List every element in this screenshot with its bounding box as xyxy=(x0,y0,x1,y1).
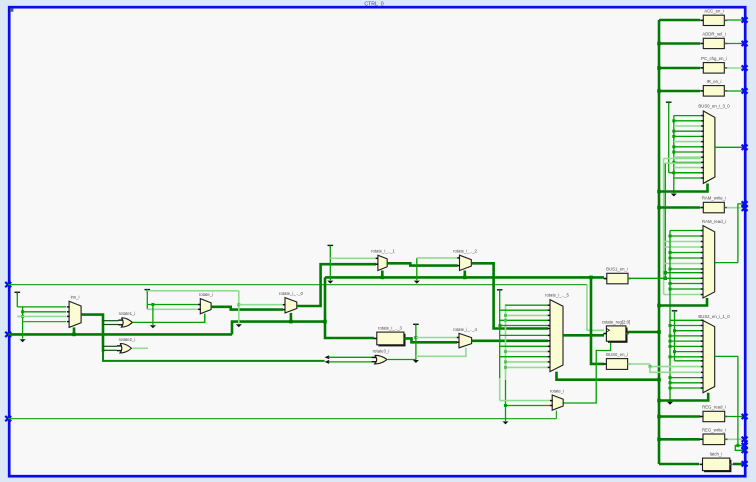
wire mux input row (BUS1 net) xyxy=(665,277,701,279)
junction xyxy=(657,415,661,419)
wire stem pale lower xyxy=(499,378,501,401)
wire select tail to long net xyxy=(555,411,557,419)
wire mux input row xyxy=(670,283,701,285)
wire rotate_i_0 select tail xyxy=(290,313,293,322)
junction xyxy=(669,340,672,343)
wire mux input row xyxy=(675,330,702,332)
svg-text:BUS1_en_i: BUS1_en_i xyxy=(606,267,628,272)
wire mux input row xyxy=(670,340,701,342)
bus tap arrowheads xyxy=(325,355,330,359)
ground arrow xyxy=(413,360,419,363)
vcc T big mux xyxy=(497,289,503,291)
svg-text:rotate_i_.._5: rotate_i_.._5 xyxy=(545,292,569,297)
wire ins_i net lower run xyxy=(103,351,325,361)
wire mux input row xyxy=(670,345,701,347)
pin RAM_read_i xyxy=(742,201,748,206)
wire BUS2 mux output xyxy=(715,355,738,357)
buffer latch_i xyxy=(704,460,731,473)
wire big mux select tail xyxy=(557,372,660,380)
wire rotate_i_2 select tail xyxy=(463,271,466,278)
svg-text:rotate_i_.._1: rotate_i_.._1 xyxy=(371,249,395,254)
wire mux0 input a xyxy=(239,304,283,306)
wire mux input row pale xyxy=(664,241,701,243)
mux ins_i xyxy=(69,301,81,327)
wire pale vertical big mux xyxy=(505,304,507,380)
pin PC_chg_en_i xyxy=(742,65,748,70)
wire vcc stem xyxy=(16,293,18,307)
or-gate rotate3_i xyxy=(375,355,387,364)
wire mux input row xyxy=(670,335,701,337)
junction xyxy=(657,438,661,442)
wire pale vertical xyxy=(238,291,240,324)
wire vcc stem xyxy=(146,290,148,309)
buffer REG_read_i xyxy=(703,411,725,421)
junction xyxy=(323,320,327,324)
wire rotate_i_4 output to big mux xyxy=(472,339,548,342)
wire pale vertical feedback xyxy=(663,159,665,295)
junction xyxy=(669,257,672,260)
mux rotate_i_1 xyxy=(378,255,387,270)
junction xyxy=(151,303,154,306)
wire RAM_read mux output xyxy=(715,262,738,264)
junction xyxy=(669,282,672,285)
wire ACC_en_i output xyxy=(727,19,745,21)
wire vcc stem down xyxy=(674,312,676,361)
svg-text:REG_write_i: REG_write_i xyxy=(702,427,726,432)
junction xyxy=(669,288,672,291)
ground arrow xyxy=(236,324,242,327)
junction xyxy=(673,350,676,353)
wire mux input row from T xyxy=(675,360,702,362)
wire mux input row xyxy=(670,268,701,270)
or-gate rotate1_i xyxy=(121,318,132,327)
wire mux input row xyxy=(675,351,702,353)
svg-text:ACC_en_i: ACC_en_i xyxy=(704,9,724,14)
wire mux input row xyxy=(674,115,701,117)
junction xyxy=(736,444,739,447)
junction xyxy=(589,276,593,280)
mux RAM_read_i xyxy=(703,226,715,298)
junction xyxy=(657,330,661,334)
junction xyxy=(664,277,667,280)
wire mux4 input a xyxy=(416,337,457,339)
wire mux input row xyxy=(674,172,701,174)
wire gate2 input b xyxy=(103,349,117,351)
ground arrow xyxy=(503,421,509,424)
pin BUS2_en_i a xyxy=(742,443,748,448)
wire mux input row xyxy=(674,156,701,158)
wire mux input row pale xyxy=(664,246,701,248)
wire latch_i output xyxy=(733,463,745,466)
svg-text:rotate_i_.._4: rotate_i_.._4 xyxy=(453,327,477,332)
wire mux input row xyxy=(670,325,701,327)
wire big mux input row xyxy=(500,334,548,336)
junction xyxy=(21,315,24,318)
wire big mux input row xyxy=(500,325,548,327)
ground arrow xyxy=(20,339,26,342)
wire mux input row pale xyxy=(664,294,701,296)
ground arrow xyxy=(150,325,156,328)
wire bus to BUS1_en xyxy=(325,276,604,279)
wire mux input row xyxy=(674,146,701,148)
svg-text:PC_chg_en_i: PC_chg_en_i xyxy=(701,56,727,61)
wire RAM_read mux select tail xyxy=(659,298,707,306)
wire to REG_read_i input xyxy=(659,415,700,418)
vcc T BUS0 area xyxy=(666,101,672,103)
wire PC_chg_en_i output xyxy=(727,67,745,69)
wire ins row 2 xyxy=(23,311,66,313)
junction xyxy=(381,276,385,280)
buffer REG_write_i xyxy=(703,434,725,445)
wire BUS0_en output xyxy=(628,363,650,365)
junction xyxy=(72,333,76,337)
wire to border pin xyxy=(738,204,745,263)
wire mux input row xyxy=(674,135,701,137)
wire bundle vertical xyxy=(673,116,675,193)
wire big mux input row xyxy=(500,319,548,321)
junction xyxy=(672,171,675,174)
wire RAM_write_i output xyxy=(727,207,745,209)
wire clk down to cstate_reg xyxy=(587,285,604,331)
wire mux input row xyxy=(670,288,701,290)
wire rotate3 output xyxy=(388,359,416,361)
wire rotate_i select tail xyxy=(204,314,206,323)
wire mux input row xyxy=(674,141,701,143)
junction xyxy=(504,366,507,369)
wire to PC_chg_en_i input xyxy=(659,67,700,70)
wire cstate_reg feedback to rotate_i mux xyxy=(563,343,610,403)
wire mux input row xyxy=(674,161,701,163)
svg-text:BUS2_en_i_1_0: BUS2_en_i_1_0 xyxy=(698,314,730,319)
wire gate3 input b xyxy=(329,361,375,363)
wire rotate1 output to mux select xyxy=(132,314,204,323)
wire vcc stem mux1 xyxy=(329,246,331,280)
junction xyxy=(672,119,675,122)
pin RAM_write_i xyxy=(742,206,748,211)
junction xyxy=(21,310,24,313)
junction xyxy=(669,376,672,379)
wire mux input a xyxy=(500,400,550,402)
svg-text:RAM_read_i: RAM_read_i xyxy=(702,219,726,224)
wire corner xyxy=(499,400,502,402)
wire stem big mux down xyxy=(499,291,501,378)
wire down to BUS0_en_i xyxy=(591,277,604,364)
wire main left bus xyxy=(8,333,232,336)
wire big mux input row xyxy=(506,314,549,316)
wire big mux output to cstate_reg xyxy=(563,334,604,337)
wire bright vertical BUS1 net xyxy=(664,163,666,278)
wire mux input row pale xyxy=(664,263,701,265)
wire big mux input row xyxy=(500,356,548,358)
pin BUS2_en_i b xyxy=(742,448,748,453)
junction xyxy=(672,135,675,138)
junction xyxy=(499,324,502,327)
buffer rotate_i_3 xyxy=(378,334,405,347)
wire mux input row (BUS1 net) xyxy=(665,272,701,274)
ground arrow xyxy=(671,194,677,197)
wire rotate2 output stub xyxy=(133,347,149,349)
wire REG_read_i output xyxy=(728,416,745,418)
svg-text:rotate_i_.._3: rotate_i_.._3 xyxy=(378,326,402,331)
wire mux input row xyxy=(670,382,701,384)
junction xyxy=(664,271,667,274)
ground arrow xyxy=(667,402,673,405)
junction xyxy=(289,320,293,324)
wire ins_i output xyxy=(81,315,103,352)
wire pale row xyxy=(665,162,701,164)
wire mux input row xyxy=(674,167,701,169)
pin bottom left xyxy=(5,416,11,421)
wire to pin b xyxy=(735,446,744,451)
wire mux input row xyxy=(674,120,701,122)
junction xyxy=(504,360,507,363)
buffer BUS1_en_i xyxy=(607,273,628,284)
junction xyxy=(237,303,240,306)
wire gate3 input a xyxy=(329,356,375,358)
buffer PC_chg_en_i xyxy=(703,63,724,74)
svg-text:cstate_reg[2:0]: cstate_reg[2:0] xyxy=(602,319,630,324)
junction xyxy=(669,381,672,384)
mux BUS0_en_i_3_0 xyxy=(703,111,715,183)
ground arrow xyxy=(327,281,333,284)
wire mux input a xyxy=(147,304,198,306)
wire mux input b xyxy=(147,308,198,310)
wire to pin xyxy=(738,445,745,447)
junction xyxy=(504,404,507,407)
junction xyxy=(657,399,661,403)
junction xyxy=(504,314,507,317)
junction xyxy=(672,161,675,164)
svg-text:rotate_i: rotate_i xyxy=(550,388,564,393)
wire to ADDR_sel_i input xyxy=(659,42,700,45)
pin ACC_en_i xyxy=(742,17,748,22)
wire mux input row xyxy=(670,257,701,259)
junction xyxy=(414,336,417,339)
buffer IR_en_i xyxy=(703,86,724,97)
buffer ACC_en_i xyxy=(703,15,724,25)
buffer RAM_write_i xyxy=(703,202,724,213)
buffer BUS0_en_i xyxy=(606,359,627,370)
wire bus vertical split xyxy=(325,277,374,338)
junction xyxy=(672,145,675,148)
vcc T mux1 xyxy=(328,244,334,246)
svg-text:RAM_write_i: RAM_write_i xyxy=(702,196,726,201)
junction xyxy=(672,151,675,154)
junction xyxy=(669,251,672,254)
mux rotate_i xyxy=(200,299,211,314)
svg-text:latch_i: latch_i xyxy=(710,452,722,457)
wire bus jog up xyxy=(232,322,325,335)
pin latch_i xyxy=(742,461,748,466)
svg-text:BUS0_en_i: BUS0_en_i xyxy=(606,352,628,357)
svg-text:BUS0_en_i_3_0: BUS0_en_i_3_0 xyxy=(698,104,730,109)
vcc T rotate area xyxy=(145,289,151,291)
junction xyxy=(669,387,672,390)
pin BUS0_en_i_3_0 xyxy=(742,145,748,150)
wire mux input row xyxy=(670,356,701,358)
wire mux input row xyxy=(674,130,701,132)
mux rotate_i bottom xyxy=(552,395,563,410)
wire rotate_i_1 select tail xyxy=(381,271,384,278)
wire ADDR_sel_i output xyxy=(727,43,745,45)
wire mux input row xyxy=(670,252,701,254)
svg-text:rotate_i: rotate_i xyxy=(199,292,213,297)
wire mux input row xyxy=(670,319,701,321)
junction xyxy=(672,130,675,133)
junction xyxy=(669,334,672,337)
wire mux input row xyxy=(674,151,701,153)
buffer ADDR_sel_i xyxy=(703,38,724,48)
wire BUS1_en output xyxy=(628,277,665,279)
junction xyxy=(657,304,661,308)
wire mux2 input a xyxy=(417,257,458,259)
pin ADDR_sel_i xyxy=(742,41,748,46)
junction xyxy=(657,206,661,210)
or-gate rotate2_i xyxy=(120,344,132,354)
mux rotate_i_2 xyxy=(460,255,472,270)
svg-text:rotate_i_.._2: rotate_i_.._2 xyxy=(453,249,477,254)
pin REG_read_i xyxy=(742,414,748,419)
svg-text:IR_en_i: IR_en_i xyxy=(707,79,722,84)
wire big mux input row xyxy=(500,309,548,311)
wire stem mux4 xyxy=(415,325,417,360)
svg-text:CTRL_0: CTRL_0 xyxy=(364,1,383,7)
wire big mux input row xyxy=(506,351,549,353)
wire bright vertical lower xyxy=(505,380,507,421)
pin bus left xyxy=(5,332,11,337)
wire REG_write_i output xyxy=(728,438,745,440)
junction xyxy=(669,345,672,348)
junction xyxy=(504,350,507,353)
junction xyxy=(657,89,661,93)
wire vcc stem down xyxy=(668,103,670,173)
junction xyxy=(649,365,652,368)
wire rotate_i_4 select tail xyxy=(416,348,466,357)
junction xyxy=(504,319,507,322)
junction xyxy=(669,268,672,271)
wire mux1 input a xyxy=(330,257,376,259)
wire rotate_i output xyxy=(211,307,283,310)
wire bundle vertical x670 spans RAM_read and BUS2 muxes xyxy=(669,231,671,402)
junction xyxy=(669,235,672,238)
wire pale to BUS2 mux xyxy=(650,364,701,367)
ground arrow xyxy=(414,281,420,284)
wire mux input row xyxy=(670,235,701,237)
wire pale row xyxy=(664,158,701,160)
wire ins row 1 xyxy=(17,306,66,308)
svg-text:ADDR_sel_i: ADDR_sel_i xyxy=(702,32,725,37)
junction xyxy=(673,329,676,332)
wire stem mux2 xyxy=(416,258,418,280)
wire pale to BUS2 mux b xyxy=(650,367,701,373)
svg-text:REG_read_i: REG_read_i xyxy=(702,405,726,410)
wire BUS2 mux select tail xyxy=(659,393,708,401)
mux BUS2_en_i_1_0 xyxy=(703,321,715,393)
junction xyxy=(657,190,661,194)
wire mux input row xyxy=(670,230,701,232)
wire to ACC_en_i input xyxy=(659,19,700,22)
wire gate1 input b xyxy=(103,324,119,326)
svg-text:rotate1_i: rotate1_i xyxy=(119,311,136,316)
mux rotate_i_5 xyxy=(550,300,563,372)
wire to latch_i input xyxy=(659,463,699,466)
wire ins row 3 xyxy=(17,315,66,317)
svg-text:rotate3_i: rotate3_i xyxy=(373,349,390,354)
wire mux input row xyxy=(670,377,701,379)
wire bottom long horizontal xyxy=(8,418,556,420)
wire big mux input row xyxy=(506,361,549,363)
vcc T ins area xyxy=(15,291,21,293)
wire BUS2 output down to pins xyxy=(737,356,739,445)
vcc T BUS2 area xyxy=(672,310,678,312)
wire rotate_i_3 output xyxy=(404,338,457,342)
wire big mux input row xyxy=(506,366,549,368)
wire to REG_write_i input xyxy=(659,438,700,441)
wire mux input row xyxy=(674,125,701,127)
mux rotate_i_4 xyxy=(459,333,472,347)
junction xyxy=(657,378,661,382)
wire rotate_i_0 output up to mux1 xyxy=(297,264,376,306)
pin REG_write_i xyxy=(742,437,748,442)
wire mux input b xyxy=(506,405,551,407)
wire mux input row xyxy=(674,177,701,179)
clock marker xyxy=(606,328,609,332)
wire ins vertical xyxy=(22,307,24,339)
wire big mux input row xyxy=(506,304,549,306)
wire gate2 input a xyxy=(103,345,117,347)
register cstate_reg[2:0] xyxy=(608,328,628,343)
junction xyxy=(669,355,672,358)
wire big mux input row xyxy=(500,345,548,347)
wire cstate_reg Q output xyxy=(628,331,660,334)
wire down to ground xyxy=(152,305,154,325)
junction xyxy=(657,66,661,70)
wire into mux row xyxy=(669,172,701,174)
pin IR_en_i xyxy=(742,88,748,93)
svg-text:rotate2_i: rotate2_i xyxy=(119,337,136,342)
wire ins row 4 xyxy=(23,321,66,323)
wire gate1 input a xyxy=(103,320,119,322)
wire to RAM_write_i input xyxy=(659,206,700,209)
svg-text:ins_i: ins_i xyxy=(71,294,80,299)
wire IR_en_i output xyxy=(727,90,745,92)
junction xyxy=(463,276,467,280)
wire rotate_i_1 output xyxy=(387,263,457,265)
wire clk long horizontal xyxy=(8,284,587,286)
pin clk left xyxy=(5,282,11,287)
wire main vertical bus net xyxy=(658,20,661,464)
wire mux input row xyxy=(670,387,701,389)
wire BUS0 mux select tail xyxy=(659,184,708,192)
junction xyxy=(669,324,672,327)
wire to IR_en_i input xyxy=(659,90,700,93)
vcc T mux4 xyxy=(413,323,419,325)
wire pale top xyxy=(147,290,239,292)
junction xyxy=(657,42,661,46)
wire ins_i select tail xyxy=(73,327,76,334)
mux rotate_i_0 xyxy=(285,298,297,313)
wire rotate_i_2 output down to big mux xyxy=(471,263,548,328)
wire BUS0 mux output xyxy=(715,146,745,148)
svg-text:rotate_i_.._0: rotate_i_.._0 xyxy=(279,291,303,296)
